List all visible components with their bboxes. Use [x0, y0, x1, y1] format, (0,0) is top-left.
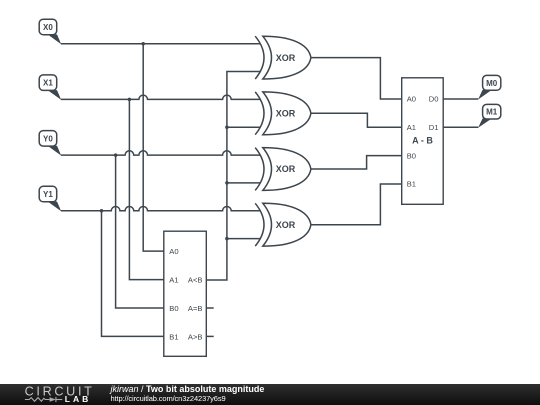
XOR gate U2: [255, 92, 311, 135]
svg-text:A0: A0: [407, 95, 416, 104]
svg-text:D1: D1: [429, 123, 439, 132]
svg-text:XOR: XOR: [276, 220, 296, 230]
svg-text:A - B: A - B: [412, 136, 433, 146]
flag Y0: [39, 131, 61, 156]
svg-text:A1: A1: [407, 123, 416, 132]
comparator stub A=B: [206, 307, 213, 309]
svg-text:M1: M1: [486, 108, 498, 117]
junction on X1 row: [128, 98, 132, 102]
junction on Y1 row: [100, 209, 104, 213]
svg-text:A1: A1: [169, 276, 178, 285]
svg-text:D0: D0: [429, 95, 439, 104]
wire A&lt;B to XOR2 lower input: [227, 126, 261, 128]
wire X0 to comparator A0: [143, 44, 164, 251]
svg-text:M0: M0: [486, 79, 498, 88]
junction A&lt;B bus at XOR2: [225, 125, 229, 129]
wire Y1 to comparator B1: [102, 211, 164, 337]
svg-text:jkirwan / Two bit absolute mag: jkirwan / Two bit absolute magnitude: [110, 384, 265, 394]
svg-text:XOR: XOR: [276, 53, 296, 63]
wire A&lt;B to XOR3 lower input: [227, 182, 261, 184]
XOR gate U3: [255, 148, 311, 191]
wire A&lt;B to XOR4 lower input: [227, 238, 261, 240]
junction on Y0 row: [114, 153, 118, 157]
svg-text:http://circuitlab.com/cn3z2423: http://circuitlab.com/cn3z24237y6s9: [111, 394, 226, 403]
XOR gate U4: [255, 203, 311, 246]
svg-text:A0: A0: [169, 247, 178, 256]
svg-text:X0: X0: [43, 23, 53, 32]
svg-text:Y0: Y0: [43, 134, 53, 143]
svg-text:B0: B0: [169, 304, 178, 313]
junction on X0 row: [141, 42, 145, 46]
wire X1 row: [61, 95, 261, 99]
svg-text:A=B: A=B: [188, 304, 203, 313]
svg-text:XOR: XOR: [276, 109, 296, 119]
svg-text:XOR: XOR: [276, 164, 296, 174]
wire Y1 row: [61, 207, 261, 211]
svg-text:B1: B1: [169, 332, 178, 341]
wire Y0 row: [61, 151, 261, 155]
footer bar: [0, 384, 540, 405]
svg-text:Y1: Y1: [43, 190, 53, 199]
junction A&lt;B bus at XOR4: [225, 237, 229, 241]
svg-text:LAB: LAB: [65, 394, 91, 404]
wire X0 row: [61, 43, 261, 45]
XOR gate U1: [255, 36, 311, 79]
svg-text:A<B: A<B: [188, 276, 203, 285]
flag M1: [478, 104, 501, 127]
wire X1 to comparator A1: [129, 99, 163, 279]
wire D0 to M0: [443, 98, 478, 100]
wire XOR4 output to B1: [311, 184, 402, 225]
flag X0: [39, 19, 61, 44]
flag X1: [39, 75, 61, 100]
svg-text:A>B: A>B: [188, 332, 203, 341]
svg-text:X1: X1: [43, 79, 53, 88]
subtractor U6 body A-B: [402, 78, 444, 205]
flag M0: [478, 75, 501, 99]
svg-text:B0: B0: [407, 151, 416, 160]
comparator stub A>B: [206, 335, 213, 337]
wire XOR3 output to B0: [311, 156, 402, 169]
junction A&lt;B bus at XOR3: [225, 181, 229, 185]
svg-text:B1: B1: [407, 180, 416, 189]
wire XOR1 output to A0: [311, 58, 402, 99]
logo resistor zigzag and diode: [25, 397, 62, 402]
comparator U5 body: [164, 231, 207, 356]
wire A&lt;B vertical bus: [206, 72, 260, 281]
wire Y0 to comparator B0: [116, 155, 164, 308]
wire D1 to M1: [443, 126, 478, 128]
wire XOR2 output to A1: [311, 113, 402, 127]
flag Y1: [39, 186, 61, 211]
